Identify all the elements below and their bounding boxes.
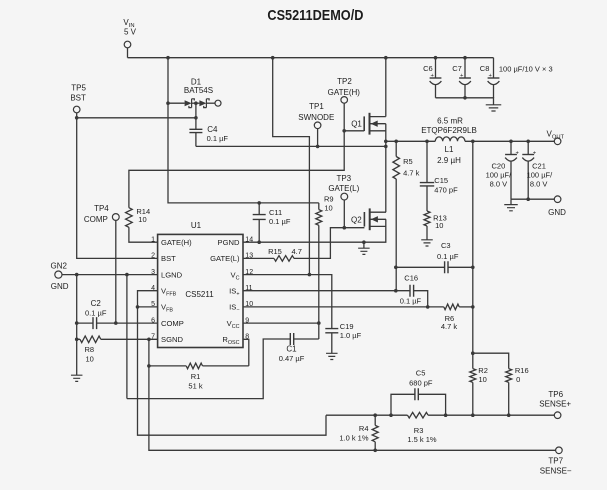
- svg-text:100 µF/: 100 µF/: [527, 170, 553, 179]
- junction VC-VIN: [308, 273, 312, 277]
- wire LGND: [126, 275, 128, 399]
- svg-text:680 pF: 680 pF: [409, 378, 433, 387]
- junction C21 bottom: [526, 197, 530, 201]
- svg-text:C1: C1: [286, 345, 297, 354]
- svg-text:C16: C16: [404, 274, 418, 283]
- junction R6-sense: [471, 305, 475, 309]
- svg-text:1.5 k 1%: 1.5 k 1%: [407, 435, 437, 444]
- svg-text:CS5211: CS5211: [185, 290, 214, 299]
- svg-text:+: +: [516, 151, 520, 157]
- svg-text:+: +: [431, 73, 435, 79]
- resistor R1: [149, 365, 186, 367]
- svg-text:C19: C19: [340, 322, 354, 331]
- svg-text:R5: R5: [403, 157, 413, 166]
- svg-text:TP6: TP6: [548, 390, 563, 399]
- svg-text:C4: C4: [207, 125, 218, 134]
- svg-text:TP4: TP4: [94, 204, 109, 213]
- svg-text:COMP: COMP: [161, 319, 184, 328]
- terminal GND output: [554, 196, 561, 203]
- svg-text:2: 2: [151, 253, 155, 260]
- svg-text:C15: C15: [434, 176, 448, 185]
- svg-text:C8: C8: [480, 64, 490, 73]
- junction C16-IS-: [426, 305, 430, 309]
- mosfet Q1: [363, 116, 365, 131]
- wire VIN drop: [168, 58, 319, 203]
- junction C2 left: [75, 321, 79, 325]
- wire ROSC: [243, 339, 249, 366]
- svg-text:TP3: TP3: [336, 174, 351, 183]
- svg-text:SWNODE: SWNODE: [298, 113, 334, 122]
- svg-text:R8: R8: [85, 345, 95, 354]
- svg-text:0.47 µF: 0.47 µF: [279, 354, 305, 363]
- svg-text:51 k: 51 k: [188, 382, 202, 391]
- capacitor C4: [195, 103, 197, 129]
- junction GND-LGND: [125, 273, 129, 277]
- svg-text:5 V: 5 V: [124, 27, 137, 36]
- svg-text:L1: L1: [445, 145, 454, 154]
- svg-text:+: +: [460, 73, 464, 79]
- svg-text:TP1: TP1: [309, 102, 324, 111]
- junction PGND-C11: [257, 240, 261, 244]
- capacitor C2: [77, 322, 93, 324]
- test point TP2: [341, 97, 348, 104]
- resistor R3: [408, 412, 429, 418]
- wire C20 gnd stub: [510, 199, 512, 204]
- svg-text:+: +: [489, 73, 493, 79]
- junction C20 top: [509, 140, 513, 144]
- svg-text:BAT54S: BAT54S: [184, 86, 213, 95]
- svg-text:BST: BST: [70, 93, 86, 102]
- resistor R15: [243, 257, 274, 259]
- resistor R14: [126, 208, 133, 228]
- svg-text:SENSE+: SENSE+: [539, 400, 571, 409]
- junction bus-Q1: [384, 56, 388, 60]
- capacitor C5: [391, 394, 415, 415]
- junction C3 right: [471, 266, 475, 270]
- svg-text:100 µF/: 100 µF/: [486, 170, 512, 179]
- svg-text:+: +: [533, 151, 537, 157]
- svg-text:470 pF: 470 pF: [434, 185, 458, 194]
- svg-text:TP5: TP5: [71, 84, 86, 93]
- svg-text:GND: GND: [548, 208, 566, 217]
- ground C2: [71, 375, 83, 381]
- junction R16 bottom: [507, 413, 511, 417]
- svg-text:2.9 µH: 2.9 µH: [437, 156, 461, 165]
- svg-text:R1: R1: [191, 372, 201, 381]
- capacitor C7: [464, 58, 466, 78]
- svg-text:LGND: LGND: [161, 270, 183, 279]
- svg-text:6.5 mR: 6.5 mR: [437, 116, 463, 125]
- svg-text:C5: C5: [416, 368, 426, 377]
- terminal GN2: [55, 271, 62, 278]
- test point TP3: [341, 193, 348, 200]
- wire output gnd: [511, 198, 554, 200]
- wire BST: [77, 118, 196, 259]
- svg-text:GATE(H): GATE(H): [161, 238, 192, 247]
- junction R1-SGND: [147, 364, 151, 368]
- junction TP5: [75, 116, 79, 120]
- svg-text:TP2: TP2: [337, 77, 352, 86]
- svg-text:D1: D1: [191, 78, 202, 87]
- junction D1 mid: [194, 101, 198, 105]
- svg-text:GATE(H): GATE(H): [328, 88, 361, 97]
- svg-text:GATE(L): GATE(L): [210, 254, 240, 263]
- svg-text:R9: R9: [324, 195, 334, 204]
- svg-text:1: 1: [151, 237, 155, 244]
- junction C5 left: [389, 413, 393, 417]
- capacitor C1: [294, 338, 319, 340]
- svg-text:10: 10: [324, 204, 332, 213]
- wire VFB feedback: [138, 291, 327, 436]
- wire VOUT sense: [472, 141, 474, 415]
- capacitor C19: [325, 329, 338, 333]
- resistor R8: [80, 336, 101, 343]
- svg-text:0.1 µF: 0.1 µF: [437, 252, 459, 261]
- ground input caps: [486, 105, 502, 111]
- junction R4 top: [373, 413, 377, 417]
- wire VIN bus: [128, 57, 494, 59]
- junction C4-BST: [194, 116, 198, 120]
- svg-text:PGND: PGND: [218, 238, 240, 247]
- junction Q1-vout: [384, 140, 388, 144]
- junction C21 top: [526, 140, 530, 144]
- svg-text:10: 10: [138, 215, 146, 224]
- junction L1 left: [425, 140, 429, 144]
- svg-text:4.7: 4.7: [292, 247, 302, 256]
- svg-text:Q1: Q1: [351, 120, 362, 129]
- junction Q1 gate: [342, 129, 346, 133]
- resistor R9: [318, 203, 320, 210]
- junction bus-C7: [463, 56, 467, 60]
- junction R4 bottom: [373, 449, 377, 453]
- junction bus-VC: [271, 56, 275, 60]
- svg-text:3: 3: [151, 269, 155, 276]
- svg-text:4.7 k: 4.7 k: [403, 169, 420, 178]
- junction R5-IS+: [394, 289, 398, 293]
- junction C7 gnd: [463, 96, 467, 100]
- inductor L1: [435, 137, 465, 141]
- junction R8-R1: [147, 338, 151, 342]
- svg-text:SGND: SGND: [161, 335, 183, 344]
- wire Q1 drain: [385, 58, 387, 117]
- svg-text:8.0 V: 8.0 V: [490, 179, 508, 188]
- svg-text:1.0 µF: 1.0 µF: [340, 331, 362, 340]
- svg-text:4.7 k: 4.7 k: [441, 322, 458, 331]
- capacitor C11: [258, 203, 260, 215]
- test point TP4: [112, 214, 119, 221]
- svg-text:0.1 µF: 0.1 µF: [207, 134, 229, 143]
- junction R2 bottom: [471, 413, 475, 417]
- terminal VIN: [124, 41, 131, 48]
- svg-text:10: 10: [435, 221, 443, 230]
- junction swnode: [384, 145, 388, 149]
- svg-text:6: 6: [151, 317, 155, 324]
- junction VIN-C11: [257, 201, 261, 205]
- svg-text:CS5211DEMO/D: CS5211DEMO/D: [267, 8, 363, 24]
- wire PGND: [243, 241, 364, 243]
- test point TP7: [556, 447, 563, 454]
- svg-text:C3: C3: [441, 241, 451, 250]
- terminal VOUT: [554, 138, 561, 145]
- svg-text:10: 10: [479, 375, 487, 384]
- junction R9-VCC: [317, 321, 321, 325]
- diode D1: [168, 102, 185, 104]
- ground R13: [421, 240, 433, 246]
- svg-text:C7: C7: [452, 64, 462, 73]
- ground PGND: [363, 242, 365, 248]
- ground output: [504, 205, 518, 211]
- junction C3 left: [394, 266, 398, 270]
- svg-text:GND: GND: [51, 282, 69, 291]
- svg-text:BST: BST: [161, 254, 176, 263]
- svg-text:0.1 µF: 0.1 µF: [400, 296, 422, 305]
- wire switch node: [196, 145, 386, 147]
- junction VIN-D1: [166, 101, 170, 105]
- svg-text:1.0 k 1%: 1.0 k 1%: [339, 434, 369, 443]
- junction TP1-swnode: [316, 145, 320, 149]
- svg-text:C6: C6: [423, 64, 433, 73]
- resistor R6: [444, 304, 459, 310]
- svg-text:GATE(L): GATE(L): [328, 184, 359, 193]
- capacitor C16: [410, 285, 414, 297]
- resistor R16: [473, 353, 509, 368]
- ground C19: [326, 353, 338, 359]
- svg-text:ETQP6F2R9LB: ETQP6F2R9LB: [421, 126, 477, 135]
- svg-text:SENSE−: SENSE−: [540, 467, 572, 476]
- junction GND-C2: [75, 273, 79, 277]
- svg-text:COMP: COMP: [84, 215, 108, 224]
- svg-text:0.1 µF: 0.1 µF: [269, 217, 291, 226]
- svg-text:0: 0: [516, 375, 520, 384]
- svg-text:10: 10: [86, 355, 94, 364]
- junction TP4-COMP: [114, 321, 118, 325]
- wire Q1 source: [385, 124, 387, 213]
- wire VCC: [243, 322, 319, 324]
- wire GATE(H) pin1: [129, 227, 158, 242]
- junction R8 left: [75, 338, 79, 342]
- svg-text:R15: R15: [268, 247, 282, 256]
- op-amp U1 CS5211: [158, 234, 243, 347]
- wire VC: [243, 275, 332, 329]
- svg-text:0.1 µF: 0.1 µF: [85, 308, 107, 317]
- svg-text:TP7: TP7: [548, 457, 563, 466]
- svg-text:C20: C20: [492, 161, 506, 170]
- svg-text:R4: R4: [359, 424, 369, 433]
- junction C5 right: [444, 413, 448, 417]
- capacitor C20: [510, 141, 512, 154]
- svg-text:Q2: Q2: [351, 215, 362, 224]
- svg-text:C2: C2: [91, 299, 102, 308]
- junction Q2 gate: [343, 226, 347, 230]
- wire SENSE+: [326, 414, 554, 416]
- svg-text:100 µF/10 V × 3: 100 µF/10 V × 3: [499, 64, 553, 73]
- svg-text:U1: U1: [191, 221, 202, 230]
- junction sense split: [471, 351, 475, 355]
- capacitor C3: [396, 266, 445, 268]
- svg-text:8.0 V: 8.0 V: [530, 179, 548, 188]
- svg-text:R3: R3: [414, 426, 424, 435]
- resistor R5: [395, 141, 397, 156]
- junction bus-C6: [434, 56, 438, 60]
- wire pin5 stub: [138, 306, 158, 308]
- junction PGND-gnd: [362, 240, 366, 244]
- wire VIN-VC link: [273, 58, 310, 275]
- svg-text:C21: C21: [532, 161, 546, 170]
- mosfet Q2: [363, 212, 365, 227]
- svg-text:R16: R16: [515, 366, 529, 375]
- capacitor C15: [426, 141, 428, 182]
- wire IS+: [243, 290, 410, 292]
- junction R5 top: [394, 140, 398, 144]
- wire C2 gnd vertical: [76, 275, 78, 376]
- wire IS-: [243, 306, 444, 308]
- test point TP6: [554, 412, 561, 419]
- svg-text:R2: R2: [478, 366, 488, 375]
- wire Q2 source: [364, 219, 386, 242]
- capacitor C21: [527, 141, 529, 154]
- svg-text:7: 7: [151, 334, 155, 341]
- junction bus-D1: [166, 56, 170, 60]
- capacitor C8: [493, 58, 495, 78]
- resistor R2: [470, 369, 476, 383]
- test point TP1: [314, 122, 321, 129]
- svg-text:GN2: GN2: [50, 261, 67, 270]
- wire VOUT: [386, 140, 555, 142]
- wire SGND SENSE-: [149, 339, 556, 450]
- junction VFB: [136, 305, 140, 309]
- svg-text:C11: C11: [269, 208, 282, 217]
- capacitor C6: [435, 58, 437, 78]
- test point TP5: [73, 106, 80, 113]
- resistor R13: [424, 211, 430, 226]
- resistor R4: [374, 415, 376, 425]
- wire input caps gnd: [436, 98, 494, 105]
- junction sense top: [471, 140, 475, 144]
